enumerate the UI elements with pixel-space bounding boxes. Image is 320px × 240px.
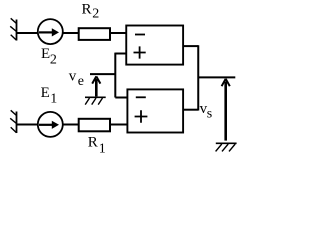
wire E1 to R1 [63,124,79,126]
label vs [200,101,213,122]
node ve vertical wire [114,53,116,98]
svg-text:e: e [78,74,84,89]
wire R2 to op-amp U2 minus input [110,32,126,34]
svg-text:2: 2 [50,52,57,67]
svg-text:1: 1 [50,91,57,106]
arrow ve (voltage arrow) [92,76,100,96]
svg-text:E: E [41,85,50,101]
wire R1 to op-amp U1 plus input [110,124,127,126]
source E1 [38,112,63,137]
arrow vs (voltage arrow) [222,79,230,141]
label E2 [41,46,57,67]
wire E2 to R2 [63,32,79,34]
op-amp U2 (top rectangle) [126,26,183,65]
ground GND2 (top-left) [10,18,16,40]
svg-text:R: R [88,134,98,150]
U1 minus label [136,96,146,98]
op-amp U1 (bottom rectangle) [127,89,183,132]
ground under ve arrow [85,97,106,104]
svg-text:1: 1 [99,142,106,157]
ground GND1 (bottom-left) [10,110,16,133]
resistor R1 [79,119,110,132]
wire vs tap [198,76,235,78]
svg-text:R: R [82,2,92,18]
wire U2 output [183,45,198,47]
label ve [69,69,84,89]
label R1 [88,134,106,156]
label E1 [41,85,58,106]
source E2 [38,19,63,44]
label R2 [82,2,100,22]
wire U2 plus input from node ve [115,53,126,55]
wire U1 output [183,109,198,111]
wire node ve to op-amp U1 minus input [115,97,127,99]
svg-text:s: s [207,107,212,122]
wire ground to E1 [17,124,38,126]
wire ve tap [90,73,115,75]
U2 minus label [135,34,145,36]
svg-text:v: v [69,69,77,85]
resistor R2 [79,28,110,40]
ground under vs arrow [216,143,237,151]
wire ground to E2 [17,32,38,34]
U1 plus label [135,110,148,123]
svg-text:E: E [41,46,50,62]
svg-text:2: 2 [92,7,99,22]
wire output bus vertical [197,45,199,110]
U2 plus label [134,46,146,58]
